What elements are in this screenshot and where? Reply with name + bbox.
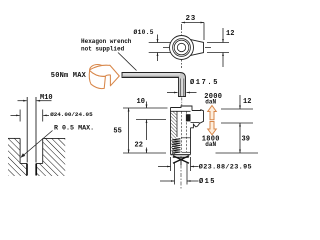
wrench body bbox=[122, 73, 186, 97]
wall hatch bbox=[171, 112, 177, 155]
svg-text:not supplied: not supplied bbox=[81, 46, 125, 53]
hidden line dashed bbox=[180, 112, 182, 153]
spring coil bbox=[172, 139, 180, 154]
dim 10 arrows bbox=[146, 102, 148, 109]
wrench highlight bbox=[123, 73, 180, 75]
body flange bbox=[171, 106, 193, 111]
outer circle bbox=[170, 36, 194, 60]
left dim chain extension lines bbox=[123, 107, 168, 109]
torque arrow (orange) bbox=[89, 65, 119, 89]
svg-text:Ø17.5: Ø17.5 bbox=[190, 78, 219, 87]
wrench leg facets bbox=[180, 79, 182, 97]
block top surface bbox=[8, 137, 20, 139]
leader line bbox=[118, 53, 137, 71]
svg-text:39: 39 bbox=[242, 136, 250, 144]
svg-text:Ø23.88/23.95: Ø23.88/23.95 bbox=[199, 163, 252, 172]
svg-text:23: 23 bbox=[186, 15, 197, 23]
dim 22 line bbox=[146, 120, 148, 141]
hidden line dashed bbox=[186, 112, 188, 153]
dim 23 line bbox=[182, 22, 205, 24]
up arrow orange bbox=[208, 106, 217, 120]
inner circle bbox=[177, 43, 185, 51]
svg-text:12: 12 bbox=[226, 30, 234, 38]
hole walls bbox=[19, 138, 21, 163]
stud lines bbox=[26, 97, 28, 163]
arm inner line bbox=[191, 122, 200, 124]
centerline stub bbox=[181, 98, 183, 107]
dim O15 bbox=[174, 163, 176, 185]
tab (tapered lug) bbox=[190, 39, 204, 55]
down arrow orange bbox=[208, 122, 217, 135]
flange underside bbox=[171, 110, 191, 112]
svg-text:R 0.5 MAX.: R 0.5 MAX. bbox=[54, 124, 94, 132]
right extension lines bbox=[221, 108, 253, 110]
latch arm bbox=[191, 110, 204, 128]
svg-text:Ø15: Ø15 bbox=[199, 177, 216, 186]
svg-text:55: 55 bbox=[113, 127, 121, 135]
horizontal centerline bbox=[163, 47, 212, 49]
circle r9 bbox=[173, 39, 191, 57]
leader with arrow bbox=[22, 131, 53, 157]
svg-text:12: 12 bbox=[243, 98, 251, 106]
center dashed line below bbox=[180, 156, 182, 190]
svg-text:10: 10 bbox=[137, 98, 145, 106]
dim 55 line bbox=[128, 108, 130, 153]
block hatching bbox=[8, 138, 27, 176]
svg-text:50Nm MAX: 50Nm MAX bbox=[51, 72, 87, 80]
svg-text:daN: daN bbox=[205, 141, 216, 148]
dim O17.5 arrows bbox=[167, 92, 178, 94]
bottom staked end X bbox=[173, 156, 189, 163]
dim O10.5 extension lines bbox=[149, 42, 171, 44]
counterbore bottom bbox=[20, 163, 27, 165]
dim 39 bbox=[239, 123, 241, 153]
body bottom bbox=[171, 154, 191, 156]
pin guide lines bbox=[182, 137, 191, 139]
svg-text:daN: daN bbox=[205, 98, 216, 105]
svg-text:Hexagon wrench: Hexagon wrench bbox=[81, 38, 132, 45]
vertical centerline bbox=[181, 24, 183, 68]
dim 12 extension lines bbox=[207, 42, 229, 44]
pivot dark section bbox=[186, 114, 191, 121]
dim O10.5 arrows bbox=[157, 35, 159, 43]
svg-text:Ø10.5: Ø10.5 bbox=[134, 29, 154, 36]
dim 12 arrows bbox=[222, 28, 224, 43]
tapped hole walls (thick) bbox=[26, 164, 28, 176]
svg-text:Ø24.00/24.05: Ø24.00/24.05 bbox=[50, 111, 93, 118]
wall inner edge bbox=[176, 111, 178, 137]
circle r7 bbox=[174, 40, 189, 55]
dim 23 right extension bbox=[203, 23, 205, 41]
body right edge bbox=[190, 128, 192, 155]
body left edge bbox=[170, 108, 172, 155]
svg-text:22: 22 bbox=[135, 142, 143, 150]
dim O23.88/23.95 bbox=[170, 157, 172, 171]
